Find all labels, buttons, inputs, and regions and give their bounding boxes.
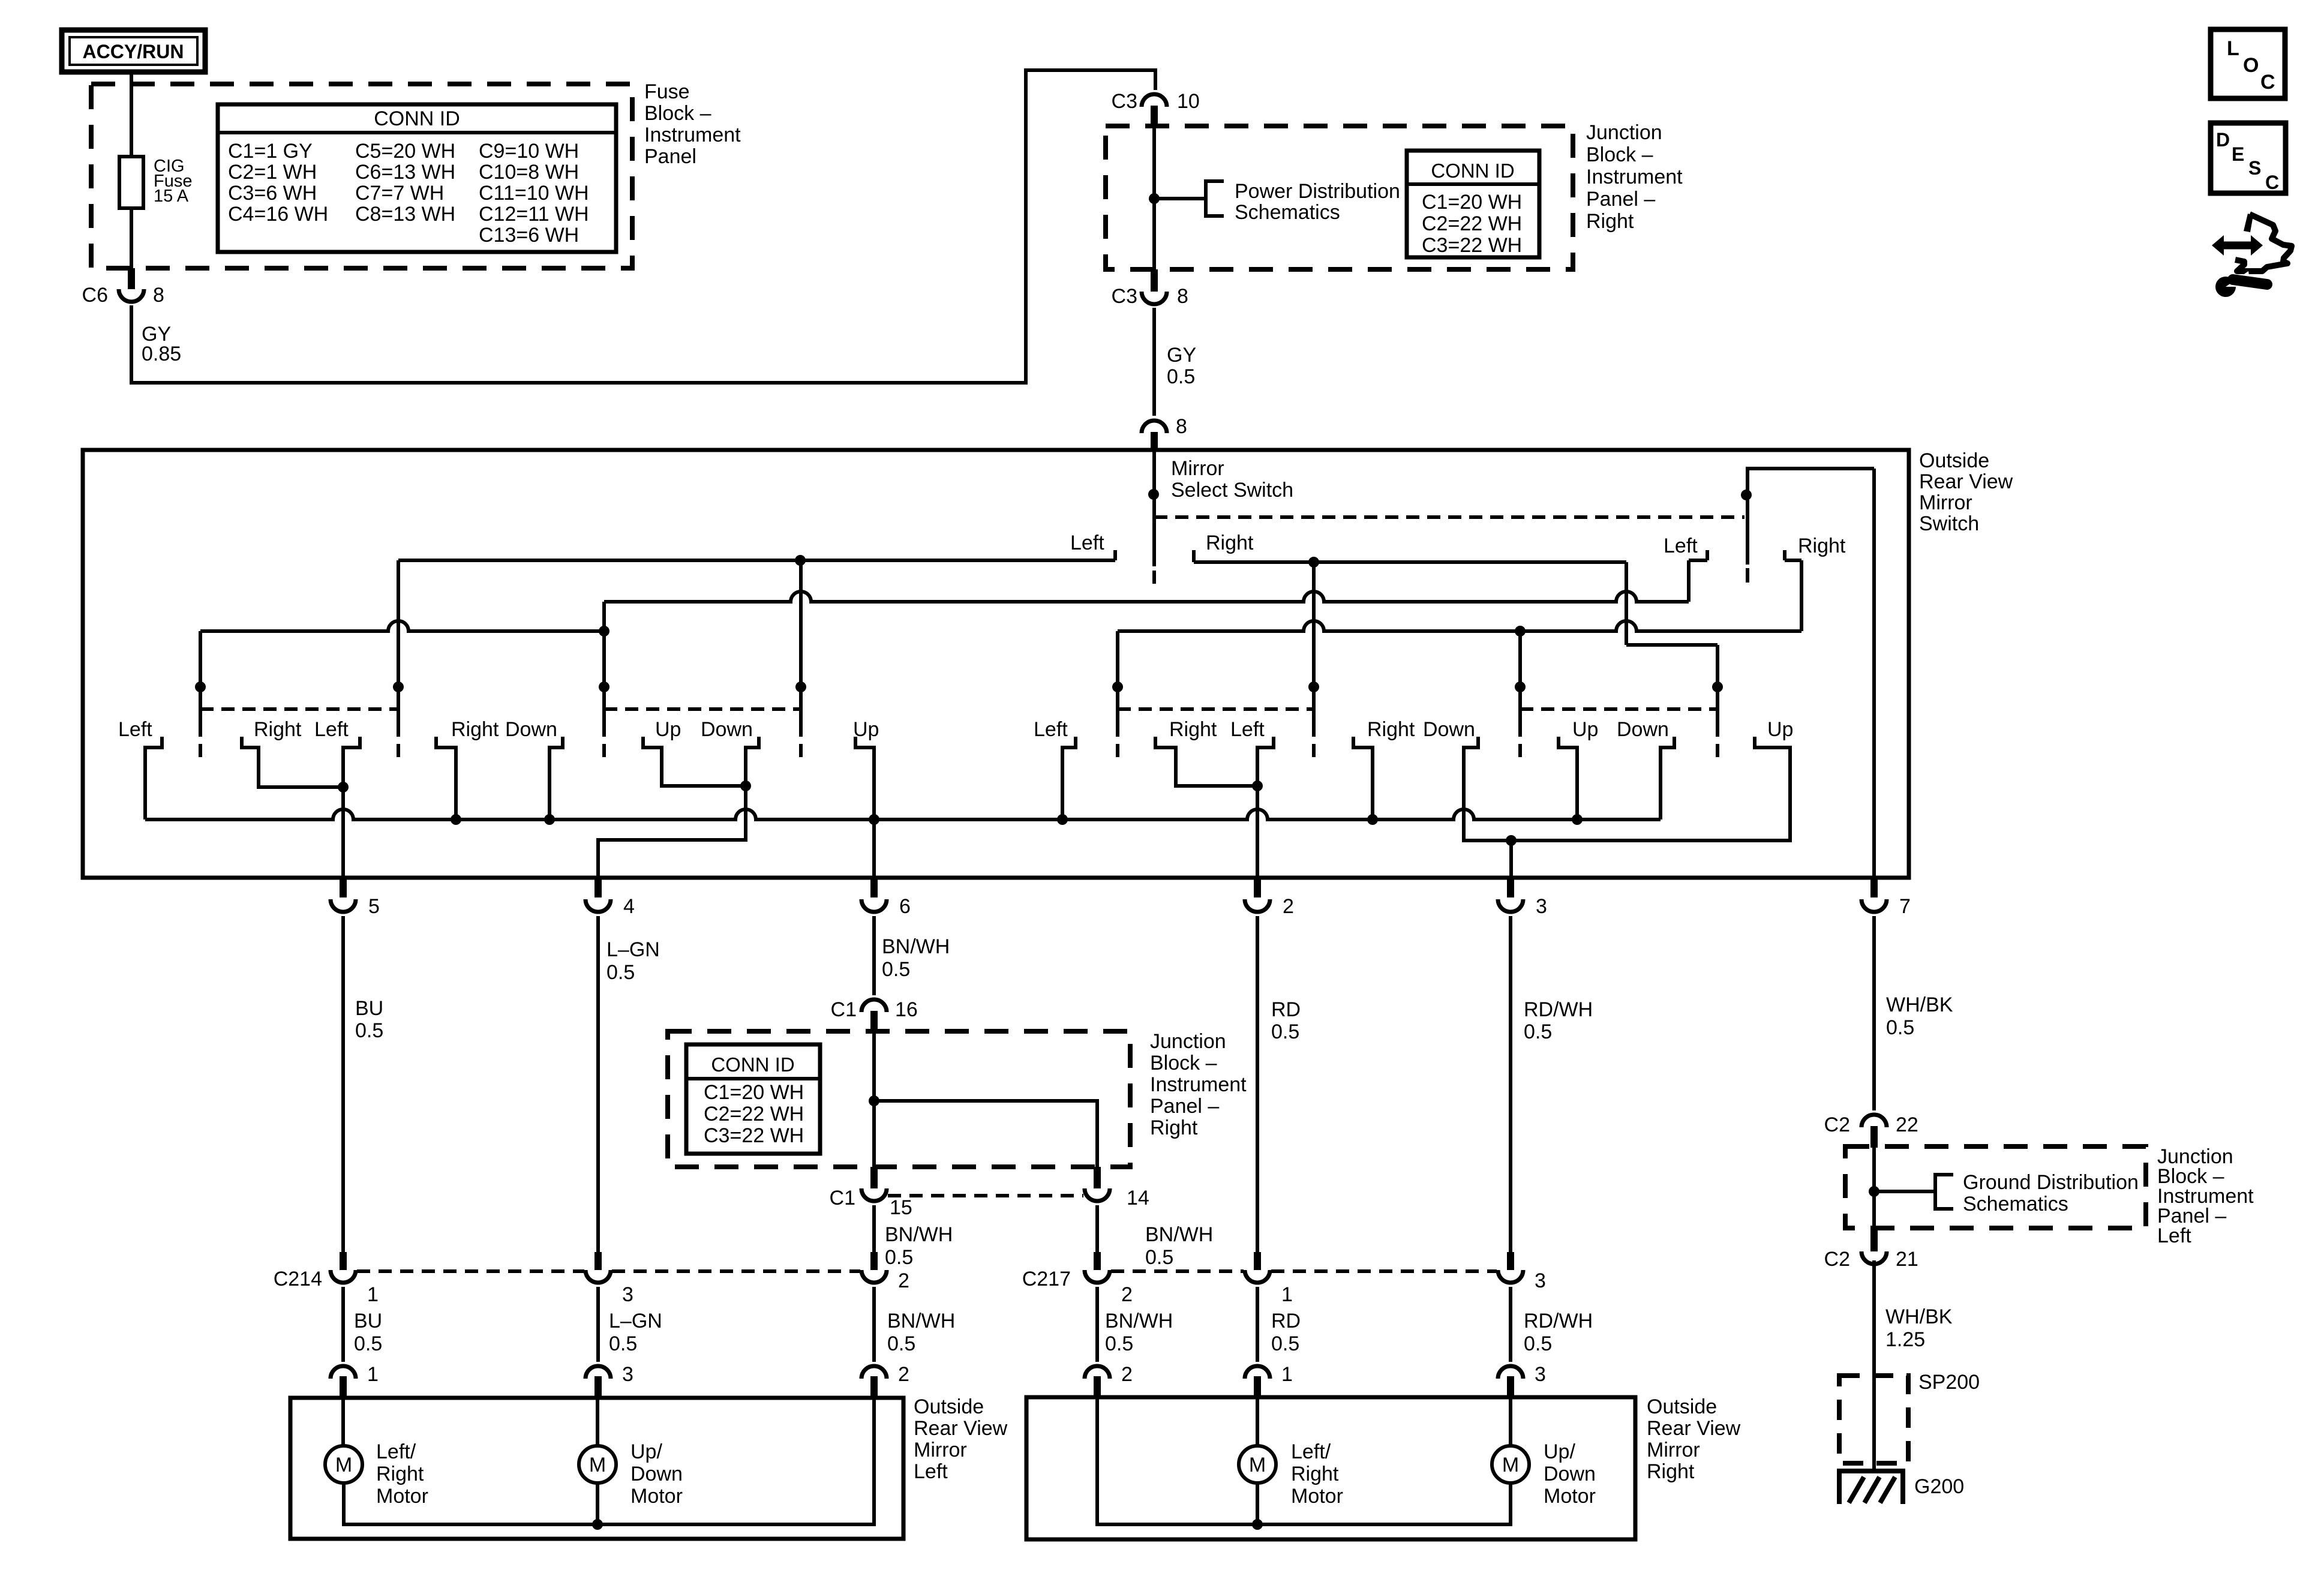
svg-text:1.25: 1.25 (1885, 1328, 1925, 1351)
svg-text:Up: Up (1767, 718, 1793, 741)
bus wire to pin 6 (145, 809, 1661, 819)
node select left / up-down blade (795, 555, 806, 566)
svg-text:RD: RD (1271, 1310, 1301, 1332)
svg-text:4: 4 (623, 895, 635, 918)
switch pin 4 (594, 876, 602, 897)
svg-text:10: 10 (1177, 90, 1200, 113)
motor M left/right (left mirror) (325, 1446, 362, 1483)
svg-text:BN/WH: BN/WH (1105, 1310, 1173, 1332)
svg-text:Right: Right (1798, 535, 1846, 557)
contact Down2 / pin 4 wire (598, 737, 759, 878)
legend LOC box (2211, 29, 2285, 98)
connector C2 pin 21 (1870, 1228, 1878, 1251)
svg-text:Right: Right (1367, 718, 1415, 741)
svg-text:C8=13 WH: C8=13 WH (355, 203, 455, 226)
wire jb2 branch to pin 14 (874, 1101, 1097, 1167)
svg-text:Junction: Junction (1586, 121, 1662, 144)
splice SP200 dashed box (1839, 1376, 1908, 1463)
connector C214 pin 3 (594, 1252, 602, 1270)
svg-text:0.5: 0.5 (1886, 1016, 1914, 1039)
svg-text:BN/WH: BN/WH (887, 1310, 955, 1332)
svg-text:Panel –: Panel – (1586, 188, 1655, 211)
svg-text:Up: Up (655, 718, 681, 741)
wire left UD motor feed (596, 1398, 599, 1446)
svg-text:Junction: Junction (1150, 1030, 1226, 1053)
outside rear view mirror right box (1026, 1397, 1635, 1539)
contact Up5 drop (1559, 737, 1577, 819)
contact Left3 drop (1062, 737, 1076, 819)
svg-text:Right: Right (254, 718, 302, 741)
connector C217 pin 2 (1094, 1252, 1101, 1270)
svg-text:Right: Right (1291, 1463, 1339, 1485)
wire through junction block 2 (872, 1032, 876, 1167)
wire to ground distribution bracket (1874, 1190, 1935, 1193)
svg-text:M: M (1502, 1454, 1519, 1476)
contact Down5 drop (1661, 737, 1674, 819)
left mirror connector pin 2 (861, 1366, 887, 1379)
svg-text:Mirror: Mirror (1171, 457, 1224, 480)
svg-text:L–GN: L–GN (606, 938, 660, 961)
blade L1a dash (199, 744, 202, 757)
svg-text:C2=22 WH: C2=22 WH (1422, 212, 1522, 235)
svg-text:Up/: Up/ (630, 1440, 662, 1463)
wire C214-1 BU (341, 1287, 345, 1362)
connector C3 pin 8 (1151, 269, 1158, 292)
svg-text:0.5: 0.5 (1145, 1246, 1173, 1269)
outside rear view mirror left box (290, 1398, 903, 1539)
svg-text:Block –: Block – (1586, 143, 1653, 166)
motor M up/down (right mirror) (1492, 1446, 1529, 1483)
svg-text:6: 6 (899, 895, 911, 918)
contact Left2 / pin 5 wire (343, 737, 360, 878)
node blade R1a pivot (1112, 682, 1123, 692)
svg-text:S: S (2248, 157, 2261, 179)
wire C2-21 WH/BK (1872, 1260, 1876, 1471)
connector C1 pin 14 (1094, 1167, 1101, 1188)
svg-text:2: 2 (898, 1269, 909, 1292)
svg-text:3: 3 (622, 1363, 633, 1386)
svg-text:Mirror: Mirror (1647, 1439, 1700, 1461)
select contact Left (pole1) (1113, 550, 1117, 560)
blade R1a dash (1116, 744, 1119, 757)
wire pin2 RD (1256, 916, 1259, 1252)
svg-text:WH/BK: WH/BK (1886, 993, 1953, 1016)
switch blade R2b wire (1716, 645, 1719, 737)
node blade L2b pivot (795, 682, 806, 692)
power feed box ACCY/RUN (62, 30, 205, 72)
junction block left dashed outline (1845, 1146, 2146, 1228)
blade L2a dash (602, 744, 606, 757)
svg-text:2: 2 (1121, 1283, 1133, 1306)
svg-text:L–GN: L–GN (609, 1310, 662, 1332)
svg-text:3: 3 (1535, 1269, 1546, 1292)
node bus at 2288 (1367, 814, 1378, 825)
wire C214-3 L-GN (596, 1287, 600, 1362)
svg-text:C3: C3 (1112, 90, 1137, 113)
wire pin6 BN/WH (872, 916, 876, 995)
connector C1 link dashed (888, 1194, 1083, 1197)
svg-text:BN/WH: BN/WH (1145, 1223, 1213, 1246)
svg-text:C6: C6 (82, 284, 108, 307)
svg-text:Motor: Motor (1291, 1485, 1343, 1508)
svg-text:Right: Right (1169, 718, 1217, 741)
svg-text:D: D (2216, 129, 2230, 151)
svg-text:Left: Left (118, 718, 152, 741)
svg-text:Left: Left (1664, 535, 1698, 557)
node pin3 join (1506, 835, 1517, 846)
svg-text:C2: C2 (1824, 1248, 1850, 1271)
svg-text:SP200: SP200 (1918, 1371, 1980, 1394)
svg-text:Mirror: Mirror (1919, 491, 1972, 514)
node blade L1b pivot (393, 682, 404, 692)
svg-text:0.5: 0.5 (885, 1246, 913, 1269)
svg-text:C5=20 WH: C5=20 WH (355, 140, 455, 163)
svg-text:C2=22 WH: C2=22 WH (704, 1103, 804, 1125)
select switch pole 1 wire (1152, 450, 1156, 566)
node bus at 2629 (1572, 814, 1583, 825)
svg-text:Outside: Outside (1647, 1395, 1717, 1418)
svg-text:Fuse: Fuse (644, 80, 690, 103)
svg-text:0.5: 0.5 (1271, 1020, 1299, 1043)
CONN ID table (fuse block) (218, 104, 616, 252)
svg-text:0.5: 0.5 (355, 1019, 383, 1042)
fuse CIG Fuse 15 A (119, 157, 143, 208)
node pole 1 pivot (1148, 489, 1159, 500)
switch blade R2a wire (1518, 631, 1522, 737)
svg-text:8: 8 (1177, 285, 1188, 308)
node left motors join (592, 1519, 603, 1530)
svg-text:8: 8 (1176, 415, 1187, 438)
select contact Right (pole2) (1783, 550, 1786, 560)
left mirror connector pin 1 (331, 1366, 356, 1379)
junction block 2 dashed outline (668, 1031, 1130, 1167)
svg-text:1: 1 (1281, 1283, 1293, 1306)
svg-text:C4=16 WH: C4=16 WH (228, 203, 328, 226)
svg-text:Left/: Left/ (376, 1440, 416, 1463)
contact Left4 / pin 2 wire (1257, 737, 1274, 878)
node blade L2a pivot (599, 682, 609, 692)
node blade L1a pivot (195, 682, 206, 692)
wire C217-2 BN/WH (1095, 1287, 1099, 1362)
svg-text:1: 1 (367, 1363, 379, 1386)
connector C214 pin 2 (870, 1252, 878, 1270)
svg-text:Instrument: Instrument (1586, 166, 1683, 188)
wire pin4 L-GN (596, 916, 600, 1252)
wire left LR motor feed (341, 1398, 345, 1446)
contact Down1 drop (550, 737, 563, 819)
svg-text:C3=6 WH: C3=6 WH (228, 182, 317, 205)
node pin5 join (338, 782, 349, 792)
svg-text:Right: Right (376, 1463, 424, 1485)
svg-text:O: O (2243, 54, 2259, 77)
right mirror connector pin 3 (1498, 1366, 1523, 1379)
svg-text:BN/WH: BN/WH (882, 935, 950, 958)
switch blade L1a wire (199, 631, 202, 737)
svg-text:BU: BU (355, 997, 383, 1020)
svg-text:Panel: Panel (644, 145, 696, 168)
bracket power distribution (1206, 181, 1224, 216)
svg-text:Instrument: Instrument (1150, 1073, 1247, 1096)
svg-text:C13=6 WH: C13=6 WH (479, 224, 579, 247)
svg-text:C1=1 GY: C1=1 GY (228, 140, 313, 163)
right mirror connector pin 2 (1085, 1366, 1110, 1379)
wire right UD motor feed (1509, 1397, 1512, 1446)
svg-text:BN/WH: BN/WH (885, 1223, 953, 1246)
svg-text:RD/WH: RD/WH (1524, 998, 1593, 1021)
svg-text:Schematics: Schematics (1963, 1193, 2068, 1215)
svg-text:C2=1 WH: C2=1 WH (228, 161, 317, 184)
legend DESC box (2211, 123, 2286, 193)
svg-text:Schematics: Schematics (1235, 201, 1340, 224)
contact Up1 drop (643, 737, 746, 786)
node jb2 branch (869, 1095, 879, 1106)
select contact Right (pole1) (1192, 550, 1196, 562)
wire pin3 RD/WH (1509, 916, 1512, 1252)
svg-text:C10=8 WH: C10=8 WH (479, 161, 579, 184)
wire C217-3 RD/WH (1509, 1287, 1512, 1362)
svg-text:Select Switch: Select Switch (1171, 479, 1293, 502)
svg-text:C3=22 WH: C3=22 WH (1422, 234, 1522, 257)
svg-text:Motor: Motor (1544, 1485, 1596, 1508)
svg-text:Up/: Up/ (1544, 1440, 1575, 1463)
svg-text:15: 15 (890, 1196, 912, 1219)
svg-text:Left: Left (314, 718, 349, 741)
svg-text:ACCY/RUN: ACCY/RUN (83, 41, 184, 62)
connector C6 pin 8 (128, 268, 135, 289)
legend mirror adjust icon arrow (2222, 242, 2253, 250)
svg-text:Power Distribution: Power Distribution (1235, 180, 1400, 203)
legend mirror adjust icon housing (2244, 214, 2253, 232)
mech link right mirror UD switch (1520, 707, 1718, 711)
node select right / blade 2190 (1308, 557, 1319, 568)
outside rear view mirror switch box (83, 450, 1909, 878)
svg-text:1: 1 (367, 1283, 379, 1306)
svg-text:Rear View: Rear View (1647, 1417, 1741, 1440)
wire through junction block (1152, 126, 1156, 269)
svg-text:RD: RD (1271, 998, 1301, 1021)
svg-text:CONN ID: CONN ID (374, 107, 460, 130)
svg-text:Right: Right (1586, 210, 1634, 233)
wire through junction block 3 (1872, 1148, 1876, 1228)
wire pin14 BN/WH (1095, 1205, 1099, 1252)
svg-text:1: 1 (1281, 1363, 1293, 1386)
svg-text:16: 16 (895, 998, 918, 1021)
switch pin 7 (1870, 876, 1878, 897)
contact Down4 Up4 loop (1464, 737, 1790, 840)
svg-text:7: 7 (1899, 895, 1911, 918)
svg-text:0.5: 0.5 (609, 1332, 637, 1355)
mech link left mirror LR switch (200, 707, 398, 711)
svg-text:C7=7 WH: C7=7 WH (355, 182, 444, 205)
svg-text:0.5: 0.5 (1524, 1020, 1552, 1043)
svg-text:L: L (2227, 37, 2239, 60)
switch pin 2 (1254, 876, 1261, 897)
svg-text:C1=20 WH: C1=20 WH (1422, 191, 1522, 214)
contact Right3 drop (1155, 737, 1257, 786)
wire C214-2 BN/WH (872, 1287, 876, 1362)
blade R2b dash (1716, 744, 1719, 757)
svg-text:2: 2 (898, 1363, 909, 1386)
svg-text:Panel –: Panel – (1150, 1095, 1219, 1118)
svg-text:C217: C217 (1022, 1268, 1071, 1290)
select switch pole 2 hook wire (1747, 469, 1874, 565)
wire right LR motor feed (1256, 1397, 1259, 1446)
node blade R2a pivot (1515, 682, 1526, 692)
wire pole 2 to pin 7 (1872, 469, 1876, 878)
svg-text:C6=13 WH: C6=13 WH (355, 161, 455, 184)
svg-text:14: 14 (1127, 1187, 1149, 1209)
pole 2 blade dash (1746, 568, 1749, 583)
svg-text:Left: Left (1070, 532, 1104, 554)
connector C214 pin 1 (340, 1252, 347, 1270)
svg-text:Down: Down (701, 718, 753, 741)
select contact Left (pole2) (1706, 550, 1709, 560)
svg-text:C: C (2260, 71, 2275, 94)
blade L1b dash (397, 744, 400, 757)
svg-text:Left/: Left/ (1291, 1440, 1331, 1463)
node pole 2 pivot (1741, 490, 1752, 500)
connector C214 link dashed 1 (357, 1269, 584, 1273)
wire pin 3 (1509, 840, 1513, 878)
wire C217-1 RD (1256, 1287, 1259, 1362)
svg-text:GY: GY (1167, 344, 1196, 367)
svg-text:0.5: 0.5 (882, 958, 910, 981)
svg-text:CONN ID: CONN ID (1431, 160, 1514, 182)
svg-text:0.5: 0.5 (887, 1332, 915, 1355)
svg-text:Down: Down (1423, 718, 1475, 741)
node bus at 916 (544, 814, 555, 825)
wire left UD motor tail (596, 1483, 599, 1524)
node blade R2b pivot (1712, 682, 1723, 692)
svg-text:3: 3 (1536, 895, 1547, 918)
svg-text:Left: Left (2157, 1224, 2191, 1247)
svg-text:15 A: 15 A (154, 187, 189, 206)
connector C214 link dashed 2 (612, 1269, 860, 1273)
wire fuse to connector C6 (130, 208, 133, 269)
svg-text:0.5: 0.5 (1524, 1332, 1552, 1355)
node right motors join (1252, 1519, 1263, 1530)
node bus at 760 (451, 814, 461, 825)
svg-text:Down: Down (1544, 1463, 1596, 1485)
node power distribution tap (1149, 193, 1160, 204)
node pin2 join (1252, 781, 1263, 791)
junction block instrument panel right dashed outline (1106, 126, 1573, 269)
fuse block dashed outline (Fuse Block - Instrument Panel) (91, 84, 632, 268)
svg-text:Block –: Block – (1150, 1052, 1217, 1074)
svg-text:M: M (335, 1454, 352, 1476)
svg-text:Down: Down (630, 1463, 683, 1485)
node blade R1b pivot (1308, 682, 1319, 692)
node bus at 1457 (869, 814, 879, 825)
svg-text:G200: G200 (1914, 1475, 1964, 1498)
wire blade-334 tie (200, 621, 604, 631)
CONN ID table (junction block 2) (686, 1044, 820, 1154)
svg-text:Block –: Block – (644, 102, 711, 125)
right motor common return wire (1097, 1397, 1511, 1524)
svg-text:C1: C1 (830, 1187, 855, 1209)
connector C217 link dashed 1 (1111, 1269, 1244, 1273)
connector C1 pin 15 (870, 1167, 878, 1188)
switch pin 5 (340, 876, 347, 897)
pole 1 blade dash (1152, 571, 1156, 584)
connector C2 pin 22 (1861, 1115, 1887, 1127)
svg-text:Left: Left (1230, 718, 1265, 741)
wire C3-8 down (1152, 308, 1156, 416)
svg-text:C: C (2265, 172, 2279, 193)
svg-text:Motor: Motor (630, 1485, 683, 1508)
right mirror connector pin 1 (1245, 1366, 1270, 1379)
select switch mechanical link (1154, 515, 1744, 519)
svg-text:C11=10 WH: C11=10 WH (479, 182, 589, 205)
motor M up/down (left mirror) (579, 1446, 616, 1483)
node pin4 join (740, 781, 751, 791)
node bus at 1771 (1057, 814, 1068, 825)
contact Right2 drop (436, 737, 456, 819)
svg-text:0.5: 0.5 (1167, 365, 1195, 388)
connector C217 pin 1 (1254, 1252, 1261, 1270)
connector C3 pin 10 (1142, 94, 1167, 107)
svg-text:Rear View: Rear View (914, 1417, 1008, 1440)
switch blade L2b wire (799, 560, 803, 737)
blade R1b dash (1312, 744, 1316, 757)
svg-text:C9=10 WH: C9=10 WH (479, 140, 579, 163)
svg-text:Left: Left (1034, 718, 1068, 741)
contact Right1 to pin5 node (242, 737, 343, 787)
mech link left mirror UD switch (604, 707, 801, 711)
svg-text:5: 5 (368, 895, 380, 918)
wire right LR motor tail (1256, 1483, 1259, 1524)
svg-text:Motor: Motor (376, 1485, 428, 1508)
svg-text:3: 3 (1535, 1363, 1546, 1386)
contact Up2 / pin 6 wire (855, 737, 874, 878)
svg-text:0.85: 0.85 (142, 343, 181, 365)
contact Left1 to bus (145, 737, 162, 819)
svg-text:E: E (2232, 143, 2244, 165)
wire to power distribution bracket (1154, 197, 1206, 200)
left motor common return wire (344, 1398, 874, 1524)
CONN ID table (junction block right) (1407, 151, 1539, 257)
svg-text:C1=20 WH: C1=20 WH (704, 1081, 804, 1104)
svg-text:M: M (589, 1454, 606, 1476)
svg-text:Down: Down (505, 718, 557, 741)
node right2 blade 2534 (1515, 626, 1526, 637)
svg-text:2: 2 (1121, 1363, 1133, 1386)
blade L2b dash (799, 744, 803, 757)
node tie at 1007 (599, 626, 609, 637)
connector C1 pin 16 (861, 999, 887, 1012)
blade R2a dash (1518, 744, 1522, 757)
svg-text:3: 3 (622, 1283, 633, 1306)
switch blade L2a wire (602, 602, 606, 737)
svg-text:WH/BK: WH/BK (1885, 1305, 1953, 1328)
wire ACCY/RUN to fuse (130, 72, 133, 157)
svg-text:C3: C3 (1112, 285, 1137, 308)
svg-text:CONN ID: CONN ID (711, 1053, 794, 1076)
svg-text:Mirror: Mirror (914, 1439, 967, 1461)
svg-text:Outside: Outside (914, 1395, 984, 1418)
svg-text:BU: BU (354, 1310, 382, 1332)
svg-text:Rear View: Rear View (1919, 470, 2013, 493)
connector C217 link dashed 2 (1271, 1269, 1497, 1273)
connector C217 pin 3 (1507, 1252, 1514, 1270)
svg-text:RD/WH: RD/WH (1524, 1310, 1593, 1332)
svg-text:C3=22 WH: C3=22 WH (704, 1124, 804, 1147)
connector pin 8 at switch (1142, 421, 1167, 433)
svg-text:Instrument: Instrument (644, 124, 741, 146)
svg-text:2: 2 (1283, 895, 1294, 918)
switch pin 6 (870, 876, 878, 897)
left mirror connector pin 3 (585, 1366, 611, 1379)
